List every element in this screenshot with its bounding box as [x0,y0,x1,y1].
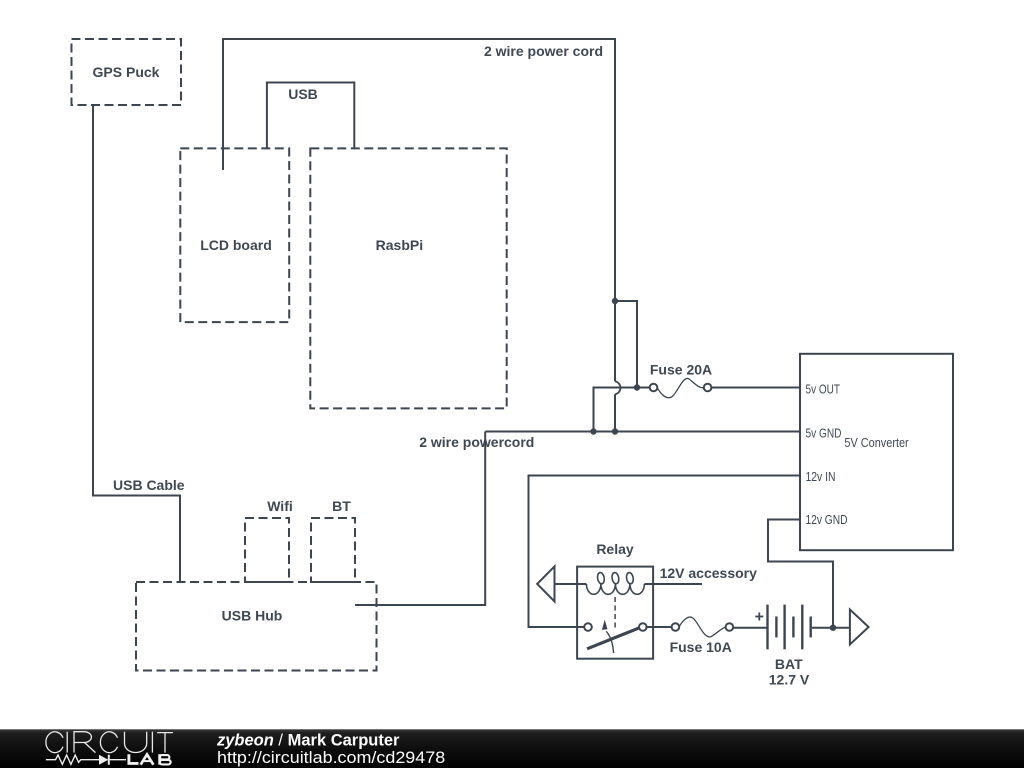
svg-text:5v GND: 5v GND [806,425,842,440]
relay dashed actuator line [614,597,616,631]
logo CIRCUIT letters [46,732,173,753]
box LCD board [180,148,289,322]
battery BAT plates [768,605,811,650]
wire branch to fuse [615,301,637,388]
wire battery to flag [812,627,850,629]
svg-text:12v IN: 12v IN [806,469,836,484]
svg-text:USB Cable: USB Cable [113,477,185,493]
wire hop over fuse wire [615,381,620,394]
wire USB bracket [267,83,354,149]
wire fuse row left [594,388,650,432]
svg-text:GPS Puck: GPS Puck [93,64,160,80]
fuse F1 Fuse 20A [650,378,800,397]
svg-text:12v GND: 12v GND [806,512,848,527]
svg-text:12.7 V: 12.7 V [769,671,810,687]
relay K1 box [577,567,653,659]
wire 2 wire powercord to USB hub [355,432,485,606]
box GPS Puck [72,39,182,105]
junction node B [634,384,640,390]
svg-text:12V accessory: 12V accessory [660,565,758,581]
wire vertical to 5v GND row [614,394,616,431]
svg-text:Fuse 20A: Fuse 20A [650,361,712,377]
wire 5v GND row [485,431,800,433]
box USB Hub [136,582,377,671]
fuse F2 Fuse 10A [672,617,734,637]
svg-text:5V Converter: 5V Converter [844,435,909,450]
junction node A [612,298,618,304]
box 5V Converter U1 [800,354,953,550]
svg-text:USB: USB [288,86,318,102]
logo LAB [129,754,171,765]
junction node C [590,428,596,434]
svg-text:5v OUT: 5v OUT [806,381,841,396]
svg-text:Fuse 10A: Fuse 10A [670,639,732,655]
relay switch SW1 [577,620,672,653]
wire GPS puck to USB hub [93,105,180,582]
svg-text:Wifi: Wifi [267,498,293,514]
box Wifi [245,518,289,582]
relay coil L1 [577,572,702,594]
svg-text:2 wire power cord: 2 wire power cord [484,43,603,59]
svg-text:USB Hub: USB Hub [222,607,283,623]
svg-text:BAT: BAT [775,656,803,672]
box BT [311,518,355,582]
junction node D [612,428,618,434]
svg-text:Relay: Relay [596,541,634,557]
wire 12v GND to battery junction [768,520,833,628]
svg-text:RasbPi: RasbPi [376,237,423,253]
flag port left [537,566,577,601]
box RasbPi [310,148,506,408]
svg-text:BT: BT [332,498,351,514]
wire switch to battery [733,627,768,629]
flag port right [850,610,869,645]
svg-text:2 wire powercord: 2 wire powercord [419,434,534,450]
logo resistor diode line [46,755,126,765]
wire 2 wire power cord top [223,39,615,381]
svg-text:http://circuitlab.com/cd29478: http://circuitlab.com/cd29478 [217,748,445,767]
svg-text:LCD board: LCD board [200,237,272,253]
footer bar [0,729,1024,768]
battery BAT plus sign [755,613,763,621]
svg-text:zybeon / Mark Carputer: zybeon / Mark Carputer [216,731,400,749]
junction node E [830,625,836,631]
wire 12v IN to relay [529,476,801,628]
